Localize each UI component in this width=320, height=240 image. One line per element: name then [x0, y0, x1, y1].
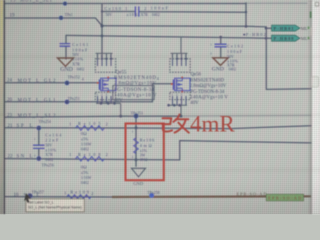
svg-text:EPB-SO-AD: EPB-SO-AD [237, 191, 267, 196]
svg-text:±10%: ±10% [127, 13, 139, 17]
svg-text:0402: 0402 [45, 157, 53, 162]
svg-text:19 MOT_L_SL1: 19 MOT_L_SL1 [10, 0, 53, 3]
svg-text:21: 21 [8, 124, 14, 129]
svg-text:0402: 0402 [81, 181, 89, 185]
svg-text:2: 2 [144, 6, 146, 11]
svg-text:Net Label SO_L: Net Label SO_L [28, 201, 54, 205]
svg-text:0402: 0402 [229, 68, 237, 72]
svg-text:2: 2 [106, 121, 108, 126]
svg-text:0402: 0402 [77, 68, 85, 72]
svg-text:Ce160: Ce160 [105, 6, 122, 11]
svg-text:TPn257: TPn257 [32, 191, 44, 195]
svg-text:Re109: Re109 [70, 190, 89, 195]
svg-text:4: 4 [82, 78, 84, 82]
svg-text:0Ω: 0Ω [81, 131, 87, 136]
svg-text:1: 1 [125, 6, 127, 11]
svg-text:P-HB01: P-HB01 [274, 26, 294, 31]
svg-text:16: 16 [14, 193, 20, 198]
svg-text:P-HB00: P-HB00 [274, 36, 295, 41]
svg-text:TPn258: TPn258 [147, 191, 159, 195]
svg-text:2: 2 [106, 152, 108, 157]
svg-text:TPn256: TPn256 [42, 164, 54, 168]
svg-text:±5%: ±5% [81, 171, 89, 175]
svg-text:24: 24 [7, 79, 13, 84]
svg-text:BMS02ETN40D: BMS02ETN40D [190, 78, 225, 83]
svg-text:TPn251: TPn251 [68, 97, 80, 101]
svg-text:1: 1 [69, 121, 71, 126]
svg-text:EPB-SO-AD: EPB-SO-AD [268, 195, 301, 200]
svg-text:4mR: 4mR [190, 112, 235, 137]
svg-text:3W: 3W [140, 154, 146, 158]
svg-text:0402: 0402 [152, 13, 160, 17]
svg-text:40V: 40V [190, 101, 199, 106]
svg-text:TPn253: TPn253 [131, 111, 143, 115]
svg-text:TPn254: TPn254 [39, 120, 51, 124]
svg-text:Qe56: Qe56 [191, 72, 202, 77]
svg-text:GND: GND [60, 67, 73, 73]
svg-text:140A@Vgs=10 V: 140A@Vgs=10 V [190, 96, 228, 101]
svg-text:0Ω: 0Ω [81, 165, 87, 170]
svg-text:TPn1: TPn1 [65, 13, 73, 17]
svg-text:2: 2 [91, 191, 93, 196]
svg-text:19: 19 [10, 13, 16, 18]
svg-text:PG-TDSON-8-34: PG-TDSON-8-34 [190, 90, 225, 95]
svg-text:3912: 3912 [140, 158, 148, 162]
svg-text:PG-TDSON-8-34: PG-TDSON-8-34 [114, 88, 155, 93]
svg-text:TPn152: TPn152 [68, 75, 80, 79]
svg-text:BMS02ETN40D: BMS02ETN40D [114, 76, 156, 81]
svg-text:1: 1 [69, 152, 71, 157]
svg-text:MOT_L_GL2: MOT_L_GL2 [18, 79, 57, 84]
svg-text:Ce161: Ce161 [72, 42, 88, 47]
svg-text:1/16W: 1/16W [81, 143, 92, 147]
svg-text:P-HB02: P-HB02 [246, 32, 266, 37]
svg-text:GND: GND [133, 181, 144, 186]
svg-text:MOT_L_SL2: MOT_L_SL2 [18, 114, 57, 119]
svg-text:GND: GND [212, 67, 224, 73]
svg-text:4mΩ: 4mΩ [140, 143, 152, 148]
svg-text:140A@Vgs=10 V: 140A@Vgs=10 V [114, 93, 157, 98]
svg-text:50V: 50V [106, 13, 113, 17]
svg-text:X7R: X7R [72, 61, 80, 66]
svg-text:Qe55: Qe55 [116, 71, 127, 76]
svg-text:Re106: Re106 [140, 137, 155, 142]
svg-text:20: 20 [7, 98, 13, 103]
svg-text:±5%: ±5% [81, 137, 89, 141]
svg-text:Ce162: Ce162 [227, 44, 243, 49]
svg-text:2.8mΩ@Vgs=10V: 2.8mΩ@Vgs=10V [190, 84, 227, 89]
svg-text:4: 4 [157, 77, 159, 81]
svg-text:±1%: ±1% [140, 149, 148, 153]
svg-text:MOT_L_GL1: MOT_L_GL1 [18, 98, 57, 103]
svg-text:1: 1 [64, 191, 66, 196]
svg-text:22: 22 [8, 154, 14, 159]
svg-text:X7R: X7R [141, 13, 149, 17]
svg-text:23: 23 [7, 114, 13, 119]
svg-text:1/16W: 1/16W [81, 176, 92, 180]
svg-text:SP_L: SP_L [17, 124, 33, 129]
svg-text:SO_L (Net Name/Physical Name): SO_L (Net Name/Physical Name) [28, 206, 82, 210]
